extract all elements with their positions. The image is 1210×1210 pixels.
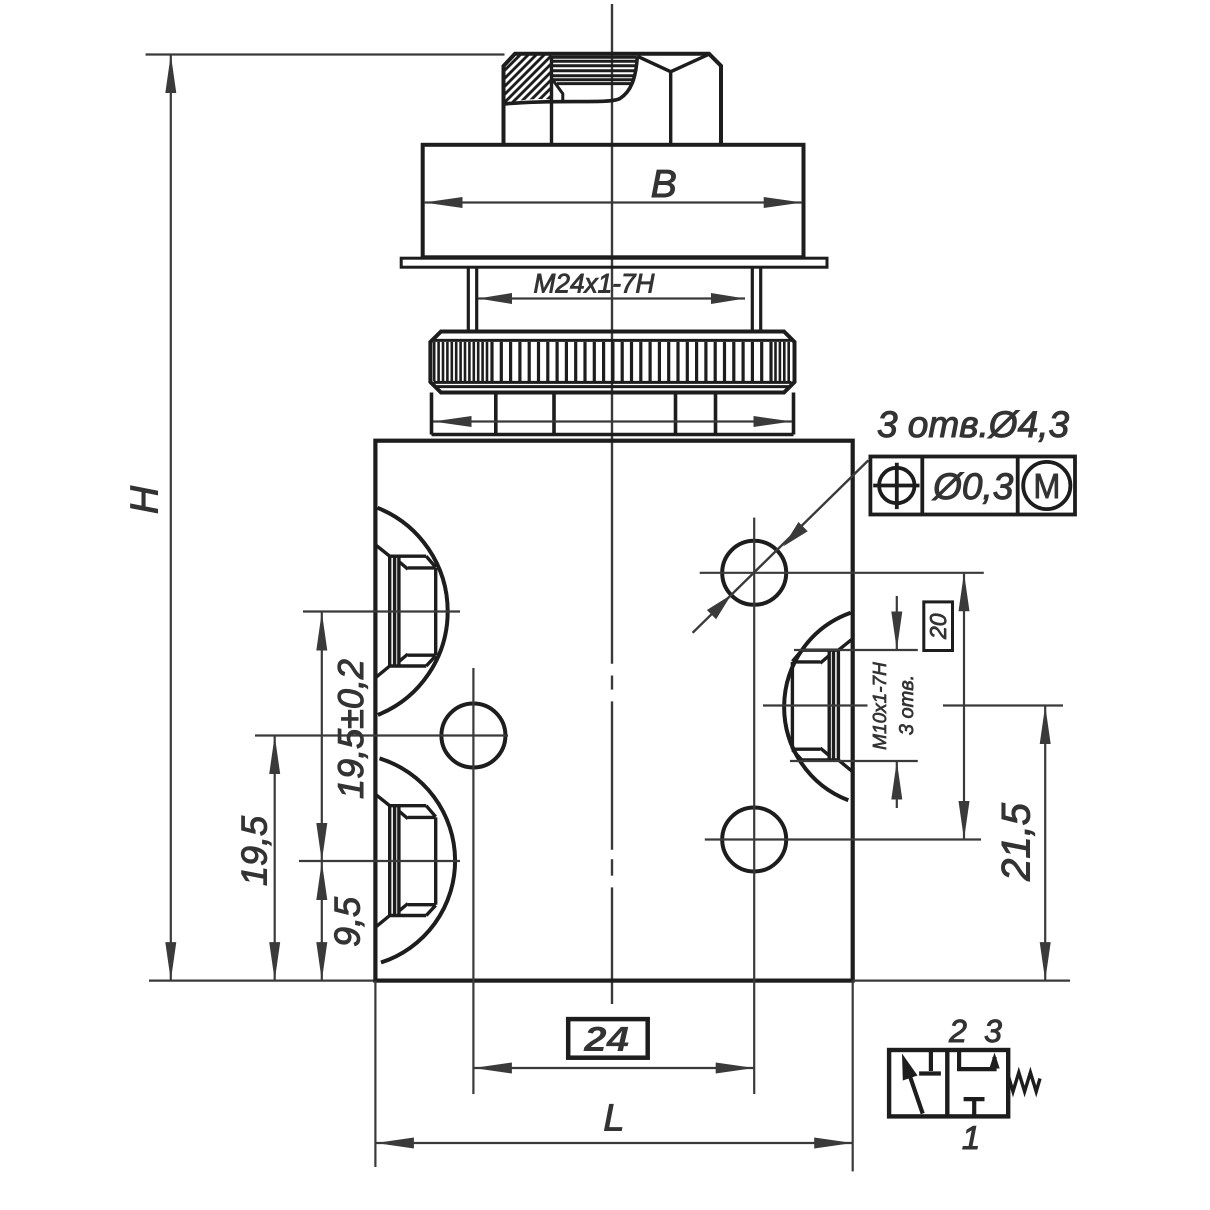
dimension 24 line: [473, 1067, 754, 1069]
svg-text:24: 24: [583, 1020, 629, 1059]
svg-text:3: 3: [984, 1013, 1002, 1049]
port P3 thread profile: [792, 639, 852, 772]
leader arrowheads: [707, 522, 808, 619]
valve left cell blocked port T: [929, 1050, 933, 1071]
boxed 20: [924, 602, 953, 651]
svg-text:20: 20: [925, 613, 951, 640]
port P1 thread profile: [375, 545, 435, 678]
svg-text:19,5: 19,5: [234, 815, 275, 886]
knurl lines: [434, 342, 789, 381]
dimension 21,5 line: [1044, 706, 1046, 981]
port P2 thread profile: [375, 794, 435, 927]
valve body: [375, 441, 852, 981]
svg-text:M24x1-7H: M24x1-7H: [534, 269, 655, 299]
dimension M24 line: [478, 297, 745, 299]
port thread dimension arrows: [896, 596, 898, 650]
button diagonal hatch: [492, 45, 560, 109]
boxed 24: [568, 1019, 648, 1058]
valve spring: [1008, 1073, 1040, 1092]
bottom right extension line: [853, 979, 1070, 981]
svg-text:M: M: [1033, 467, 1060, 506]
button flap line: [552, 79, 563, 101]
hole circle bottom right: [722, 808, 786, 872]
svg-text:3 отв.Ø4,3: 3 отв.Ø4,3: [877, 404, 1069, 445]
dimension 19,5 line: [274, 736, 276, 981]
svg-text:H: H: [124, 485, 167, 514]
svg-text:3 отв.: 3 отв.: [896, 675, 918, 735]
port P2 center line: [299, 860, 460, 862]
dimension B arrowheads: [424, 197, 802, 208]
svg-text:9,5: 9,5: [327, 896, 368, 947]
port P1 center line: [303, 610, 460, 612]
dimension 9,5 line: [321, 862, 323, 981]
svg-text:M10x1-7H: M10x1-7H: [870, 662, 891, 750]
valve right cell flow path: [959, 1050, 994, 1069]
flange plate: [401, 258, 827, 267]
dimension 19,5+-0,2 line: [321, 612, 323, 862]
center line: [611, 4, 613, 1004]
dimension B line: [424, 201, 802, 203]
knurl width dimension line: [433, 420, 792, 422]
bottom extension line: [149, 979, 376, 981]
hole circle left cross lines: [255, 734, 508, 736]
svg-text:1: 1: [962, 1119, 980, 1156]
svg-text:Ø0,3: Ø0,3: [931, 466, 1014, 507]
port P3 center line: [763, 704, 868, 706]
dimension L line: [375, 1142, 852, 1144]
button boot curve: [504, 57, 638, 105]
hole circle top right: [722, 541, 786, 605]
hex flange under knurl: [432, 393, 794, 435]
hole circle left: [441, 704, 505, 768]
knurl width dimension arrowheads: [433, 416, 792, 427]
valve left cell arrow: [910, 1075, 923, 1114]
dimension M24 arrowheads: [478, 293, 745, 304]
dimension 21,5 extension line: [943, 704, 1063, 706]
button V-notch: [637, 55, 708, 72]
port thread extension lines: [794, 649, 918, 651]
svg-text:21,5: 21,5: [995, 802, 1039, 882]
right vertical dimension line: [963, 573, 965, 840]
push button cap outline: [504, 54, 722, 145]
port P1 arc: [378, 508, 448, 715]
svg-text:L: L: [603, 1098, 624, 1140]
leader line to hole: [693, 460, 869, 632]
button section line left: [550, 57, 553, 145]
valve right cell bottom T: [972, 1099, 976, 1116]
knurled ring inner bands: [434, 340, 792, 386]
left stem rod: [468, 267, 476, 331]
knurled ring outline: [430, 332, 794, 393]
valve schematic divider: [945, 1050, 949, 1116]
M modifier symbol: [1023, 462, 1070, 509]
svg-text:19,5±0,2: 19,5±0,2: [330, 659, 371, 799]
svg-text:B: B: [651, 163, 677, 206]
top extension line: [146, 53, 505, 55]
dimension H arrowheads: [165, 55, 176, 981]
port P3 arc: [784, 613, 851, 801]
right stem rod: [752, 267, 760, 331]
svg-text:2: 2: [948, 1013, 967, 1049]
L extension lines: [374, 981, 376, 1167]
button horizontal hatch: [549, 57, 637, 83]
valve schematic body: [889, 1050, 1008, 1116]
right holes cross lines: [700, 572, 984, 574]
port P2 arc: [380, 758, 456, 962]
housing rectangle B: [423, 145, 804, 257]
button stem line: [669, 72, 672, 145]
position symbol: [873, 463, 919, 509]
dimension H line: [170, 55, 172, 981]
GD&T feature control frame: [870, 457, 1075, 515]
